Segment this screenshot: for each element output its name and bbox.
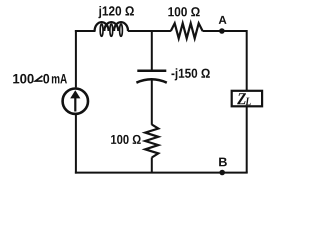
label j120 Ω — [98, 6, 134, 18]
wire left lower segment (current source to bottom-left corner) — [75, 115, 77, 174]
label A — [219, 16, 227, 24]
wire right lower segment (ZL box to bottom-right corner) — [246, 107, 248, 173]
label -j150 Ω — [171, 68, 209, 80]
node A — [219, 28, 225, 34]
inductor (coil) — [95, 22, 128, 31]
load ZL (box) — [232, 91, 262, 107]
wire top-middle segment (inductor to resistor, through middle junction) — [128, 30, 171, 32]
wire middle branch lower (resistor to bottom wire) — [151, 157, 153, 172]
resistor 100 Ω (middle, vertical zigzag) — [145, 125, 158, 158]
wire right upper segment (corner down to ZL box) — [246, 30, 248, 90]
capacitor -j150 Ω — [136, 71, 166, 83]
label 100 Ω (top resistor) — [168, 7, 199, 16]
resistor 100 Ω (top, horizontal zigzag) — [171, 23, 203, 38]
current source (circle with up arrow) — [63, 89, 88, 114]
wire bottom segment — [75, 172, 248, 174]
label B — [219, 158, 227, 167]
node B — [219, 170, 225, 176]
wire middle branch between capacitor and resistor — [151, 80, 153, 125]
label 100 Ω (middle resistor) — [111, 135, 141, 144]
label ZL — [237, 93, 251, 105]
wire left upper segment (top-left corner down to current source) — [75, 30, 77, 87]
label 100∠0 mA — [13, 74, 67, 84]
wire top-right segment (resistor to top-right corner) — [203, 30, 247, 32]
wire middle branch upper (top junction down to capacitor) — [151, 31, 153, 71]
wire top-left segment (left corner to inductor) — [75, 30, 96, 32]
